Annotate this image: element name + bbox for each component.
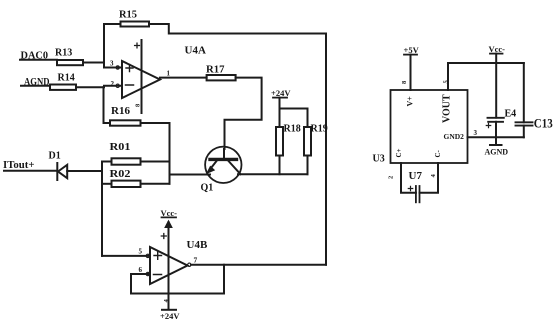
svg-text:+24V: +24V — [271, 88, 291, 98]
power +24V (U4B bottom) — [162, 309, 176, 311]
svg-text:Q1: Q1 — [201, 183, 214, 194]
wire left vertical node — [101, 162, 103, 256]
svg-text:+24V: +24V — [160, 311, 180, 321]
capacitor U7 — [401, 163, 438, 202]
wire U3 pin3 / ground rail — [468, 136, 524, 138]
svg-text:R01: R01 — [110, 142, 131, 153]
IC U3 V+ label — [406, 96, 415, 107]
wire R19 bottom — [307, 156, 309, 175]
wire U4B pin5 input — [102, 255, 148, 257]
wire U4B output — [191, 264, 326, 266]
op-amp U4B — [150, 247, 188, 284]
svg-text:8: 8 — [401, 80, 408, 84]
resistor R13 — [57, 60, 83, 65]
wire +24V to R18/R19 — [280, 98, 308, 127]
svg-text:Vcc-: Vcc- — [489, 44, 506, 54]
svg-text:U4B: U4B — [187, 239, 208, 251]
wire R16 left vertical — [103, 87, 105, 123]
power +5V — [404, 45, 420, 55]
wire ITout+ input — [4, 170, 57, 172]
svg-text:U7: U7 — [409, 170, 423, 182]
pin 3 of U3 — [474, 129, 478, 137]
svg-text:ITout+: ITout+ — [3, 159, 35, 171]
pin 2 of U3 — [388, 176, 395, 179]
resistor R02 — [102, 183, 112, 185]
svg-text:3: 3 — [110, 60, 114, 68]
wire R16 right to R01/R02 node — [141, 123, 170, 184]
svg-text:C+: C+ — [395, 148, 403, 157]
IC U3 C- label — [434, 149, 442, 157]
wire Q1 emitter left — [170, 174, 211, 176]
pin 8 of U3 — [401, 80, 408, 84]
svg-text:R13: R13 — [55, 48, 72, 59]
svg-text:E4: E4 — [505, 109, 517, 120]
pin 5 of U4B — [139, 248, 143, 256]
op-amp U4B plus mark — [154, 252, 162, 260]
svg-text:2: 2 — [388, 176, 395, 179]
svg-text:+5V: +5V — [404, 45, 420, 55]
svg-text:U3: U3 — [373, 154, 385, 165]
wire R17 to Q1 base — [225, 78, 262, 149]
op-amp U4B power line — [168, 222, 170, 310]
wire R15 left vertical — [103, 24, 105, 63]
op-amp U4A — [122, 61, 160, 98]
node ITout+ label — [3, 159, 35, 171]
power +24V (top) — [271, 88, 291, 98]
IC U3 GND2 label — [444, 132, 465, 141]
svg-text:4: 4 — [430, 174, 437, 178]
op-amp U4A V- pin mark — [135, 103, 142, 107]
wire D1 to R01/R02 node — [67, 170, 102, 172]
svg-text:3: 3 — [474, 129, 478, 137]
wire R15 to right loop — [149, 24, 326, 34]
diode D1 — [57, 163, 67, 180]
capacitor U7 plus mark — [408, 186, 412, 190]
wire Q1 collector right — [238, 173, 308, 175]
svg-text:R19: R19 — [311, 124, 328, 135]
capacitor E4 — [488, 118, 504, 138]
wire U3 pin5 to top rail — [448, 63, 524, 90]
power Vcc- arrow — [166, 222, 171, 227]
pin 1 of U4A — [167, 70, 171, 78]
IC U3 box — [391, 90, 468, 163]
pin 4 of U3 — [430, 174, 437, 178]
op-amp U4A minus input mark — [126, 84, 134, 86]
svg-text:R02: R02 — [110, 169, 131, 180]
svg-text:VOUT: VOUT — [442, 94, 453, 123]
resistor R01 — [102, 161, 112, 163]
svg-text:R15: R15 — [119, 9, 137, 20]
svg-text:C-: C- — [434, 149, 442, 157]
svg-text:R18: R18 — [284, 124, 301, 135]
svg-text:2: 2 — [111, 80, 115, 88]
wire U4A output — [160, 77, 207, 79]
op-amp U4B minus mark — [154, 274, 162, 276]
power Vcc- (right) — [489, 44, 506, 54]
op-amp U4A plus input mark — [126, 65, 133, 72]
svg-text:6: 6 — [139, 266, 143, 274]
resistor R14 — [50, 85, 76, 90]
svg-text:7: 7 — [194, 256, 198, 265]
svg-text:R17: R17 — [206, 64, 225, 75]
wire right tall vertical — [325, 34, 327, 265]
svg-text:AGND: AGND — [485, 147, 509, 156]
resistor R19 — [304, 127, 311, 156]
transistor Q1 — [205, 147, 241, 183]
pin 3 of U4A — [110, 60, 114, 68]
pin 5 of U3 — [443, 80, 450, 84]
svg-text:U4A: U4A — [185, 45, 206, 57]
IC U3 C+ label — [395, 148, 403, 157]
svg-text:D1: D1 — [49, 151, 61, 162]
svg-text:R16: R16 — [111, 106, 130, 117]
wire Vcc- down to E4 — [495, 54, 497, 118]
node AGND label — [24, 77, 50, 88]
svg-text:5: 5 — [139, 248, 143, 256]
svg-text:8: 8 — [135, 103, 142, 107]
svg-text:R14: R14 — [58, 73, 75, 84]
resistor R17 — [207, 75, 236, 80]
capacitor C13 — [516, 63, 533, 137]
node DAC0 label — [21, 51, 49, 62]
op-amp U4B V+ mark — [161, 234, 166, 239]
wire R14 to pin2 — [76, 86, 120, 87]
capacitor E4 plus mark — [486, 123, 490, 127]
ground AGND — [495, 137, 497, 145]
wire R18 bottom — [279, 156, 281, 175]
wire +5V to U3 pin8 — [410, 55, 412, 90]
power Vcc- (U4B top) — [161, 208, 178, 218]
resistor R15 — [104, 23, 121, 25]
svg-text:C13: C13 — [534, 116, 553, 130]
op-amp U4B V- pin mark — [163, 299, 170, 303]
op-amp U4A power line — [141, 40, 143, 113]
pin 7 of U4B output — [188, 263, 191, 266]
pin 6 of U4B — [139, 266, 143, 274]
wire R13 to pin3 — [83, 63, 120, 68]
svg-text:V+: V+ — [406, 96, 415, 107]
resistor R16 — [104, 122, 111, 124]
wire AGND input — [21, 85, 50, 87]
svg-text:GND2: GND2 — [444, 132, 465, 141]
svg-text:1: 1 — [167, 70, 171, 78]
IC U3 VOUT label — [442, 94, 453, 123]
op-amp U4A V+ mark — [135, 43, 140, 48]
resistor R18 — [276, 127, 283, 156]
wire U4B feedback loop — [131, 265, 224, 294]
pin 2 of U4A — [111, 80, 115, 88]
wire DAC0 input — [20, 59, 57, 61]
